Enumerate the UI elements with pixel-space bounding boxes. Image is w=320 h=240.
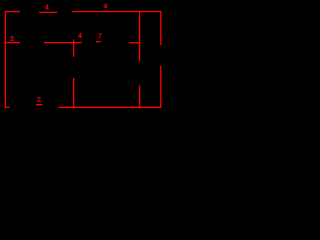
svg-text:4: 4 [104, 4, 108, 11]
svg-text:3: 3 [10, 36, 14, 43]
svg-text:4: 4 [78, 33, 82, 40]
svg-text:4: 4 [45, 5, 49, 12]
svg-text:7: 7 [98, 33, 102, 40]
svg-text:2: 2 [37, 97, 41, 104]
